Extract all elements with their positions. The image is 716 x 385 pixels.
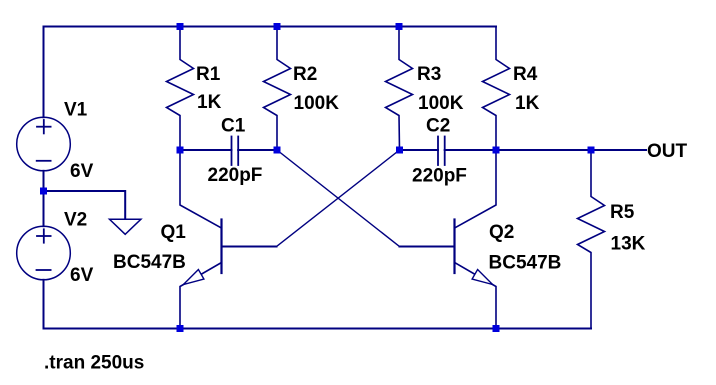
wire OUT net xyxy=(496,149,646,151)
node top rail R3 xyxy=(396,23,403,30)
wire left rail upper segment xyxy=(43,27,45,118)
svg-text:Q2: Q2 xyxy=(489,222,514,243)
capacitor C2 xyxy=(438,137,445,166)
resistor R3 xyxy=(386,27,413,151)
wire below V2 to bottom rail xyxy=(43,280,45,329)
svg-text:R3: R3 xyxy=(417,64,441,85)
wire C1 left lead xyxy=(180,149,232,151)
node A R1/C1/Q1 collector xyxy=(177,147,184,154)
node top rail R2 xyxy=(274,23,281,30)
svg-text:R1: R1 xyxy=(196,64,221,85)
resistor R2 xyxy=(264,27,291,151)
svg-text:1K: 1K xyxy=(197,92,222,113)
wire cross diagonal from node B to Q2 base xyxy=(277,150,400,247)
svg-text:BC547B: BC547B xyxy=(489,253,562,274)
node C R3/C2/cross xyxy=(396,147,403,154)
resistor R4 xyxy=(483,27,510,151)
transistor Q1 xyxy=(180,150,222,329)
wire Q1 base horizontal xyxy=(222,246,277,248)
node bottom rail Q2 emitter xyxy=(493,325,500,332)
capacitor C1 xyxy=(232,137,239,166)
voltage source V1 xyxy=(17,117,71,171)
svg-text:100K: 100K xyxy=(418,93,464,114)
wire between V1 and V2 xyxy=(43,171,45,226)
voltage source V2 xyxy=(17,226,71,280)
svg-text:V2: V2 xyxy=(64,210,87,231)
svg-text:R5: R5 xyxy=(610,202,635,223)
svg-text:13K: 13K xyxy=(611,234,646,255)
wire Q2 base horizontal xyxy=(400,246,455,248)
node V1/V2/ground junction xyxy=(40,188,47,195)
svg-text:Q1: Q1 xyxy=(161,222,187,243)
svg-text:OUT: OUT xyxy=(647,141,688,162)
wire C2 left lead xyxy=(400,149,439,151)
svg-text:1K: 1K xyxy=(515,93,540,114)
ground xyxy=(110,219,141,234)
node E OUT/R5 xyxy=(588,147,595,154)
node D R4/C2/Q2 collector/OUT xyxy=(493,147,500,154)
svg-text:V1: V1 xyxy=(64,100,88,121)
svg-text:BC547B: BC547B xyxy=(113,252,186,273)
resistor R5 xyxy=(578,150,605,329)
wire cross diagonal from node C to Q1 base xyxy=(277,150,400,247)
svg-text:220pF: 220pF xyxy=(208,165,263,186)
svg-text:R4: R4 xyxy=(513,64,538,85)
wire ground branch xyxy=(44,191,126,219)
wire C2 right lead to node D xyxy=(445,149,496,151)
wire top rail xyxy=(44,26,497,28)
svg-text:100K: 100K xyxy=(294,93,340,114)
svg-text:C1: C1 xyxy=(221,116,246,137)
transistor Q2 xyxy=(455,150,497,329)
node B R2/C1/cross xyxy=(274,147,281,154)
node bottom rail Q1 emitter xyxy=(177,325,184,332)
svg-text:R2: R2 xyxy=(293,64,317,85)
resistor R1 xyxy=(167,27,194,151)
svg-text:220pF: 220pF xyxy=(412,166,467,187)
svg-text:6V: 6V xyxy=(70,265,94,286)
node top rail R1 xyxy=(177,23,184,30)
svg-text:6V: 6V xyxy=(70,161,94,182)
wire C1 right lead xyxy=(238,149,277,151)
wire bottom rail xyxy=(44,328,592,330)
svg-text:.tran 250us: .tran 250us xyxy=(44,353,144,374)
svg-text:C2: C2 xyxy=(426,116,450,137)
